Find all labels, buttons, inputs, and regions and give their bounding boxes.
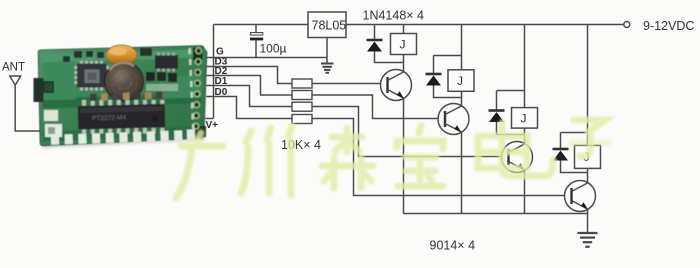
watermark 广州森宝电子 [176,120,608,198]
wire 5V drop to V+ [213,25,215,119]
board texture patches [41,50,204,142]
svg-text:J: J [400,38,406,52]
module SMD row right of coil [146,72,178,91]
wire hanger group3 [524,25,526,108]
module IC U3 SOIC [155,53,178,72]
transistor Q1 [381,63,412,214]
module left white component [44,110,58,121]
wire V+ [203,118,213,120]
capacitor C1 100u [250,25,263,58]
svg-text:9014× 4: 9014× 4 [430,239,476,253]
diode D8 1N4148 [553,133,588,173]
module right pin pads column [189,48,202,130]
resistor R4 [292,115,312,124]
svg-text:100µ: 100µ [260,42,287,56]
resistor R3 [292,102,312,111]
node power terminal [624,22,630,28]
module dark corner pad bottom-right [195,126,206,137]
char zhou [246,131,251,142]
module left dark component [34,78,44,102]
module bottom-left pads [45,124,62,137]
module mid SMD row [90,92,163,101]
svg-text:PT2272-M4: PT2272-M4 [92,114,127,122]
char bao [419,126,421,133]
resistor R2 [292,91,312,100]
module coil L1 [105,62,144,101]
wire G [206,57,327,59]
relay J4 [575,145,601,172]
wire hanger group4 [587,25,589,146]
svg-text:J: J [457,74,463,88]
regulator U2 78L05 [308,12,346,63]
wire top rail left segment [214,24,309,26]
char dian [499,123,506,168]
char zi [574,120,605,132]
wire D2 [206,76,292,96]
relay J3 [512,108,538,135]
svg-text:J: J [521,112,527,126]
module top small SMDs [63,48,152,62]
transistor Q2 [438,98,469,214]
module shadow [41,52,207,148]
diode D7 1N4148 [489,91,525,135]
relay J1 [391,25,417,63]
wire D1 [206,86,292,107]
svg-text:1N4148× 4: 1N4148× 4 [363,9,425,23]
module IC U4 QFP [75,61,110,91]
resistor R1 [292,79,312,88]
module dark corner pad top-right [193,48,203,61]
ground under 78L05 [321,64,334,73]
svg-text:D0: D0 [215,87,228,98]
wire emitter bus [404,213,588,215]
module IC U5 DIP (decoder) [78,100,166,134]
svg-text:D1: D1 [215,76,228,87]
module PCB board [38,46,207,146]
wire D3 [206,67,292,84]
diode D6 1N4148 [426,56,462,98]
relay J2 [448,70,474,98]
svg-text:78L05: 78L05 [312,19,347,33]
wire D0 [206,97,292,119]
module castellated bottom pads [51,129,195,145]
diode D5 1N4148 [367,25,404,63]
wire R4 to Q4 base [312,119,572,196]
transistor Q3 [502,135,533,214]
char sen [332,134,362,141]
wire R2 to Q2 base [312,95,445,119]
wire hanger group2 [461,25,463,70]
wire top rail right segment [346,24,623,26]
ground bottom right [578,233,598,247]
svg-text:9-12VDC: 9-12VDC [643,19,694,33]
svg-text:V+: V+ [206,120,219,131]
char guang [197,133,201,141]
schematic wires and parts drawn in group [203,22,630,214]
transistor Q4 [565,173,596,234]
wire R1 to Q1 base [312,83,388,85]
svg-text:ANT: ANT [2,62,25,74]
module capacitor disc (orange) [106,45,137,65]
antenna ANT [10,76,40,131]
wire R3 to Q3 base [312,107,509,157]
